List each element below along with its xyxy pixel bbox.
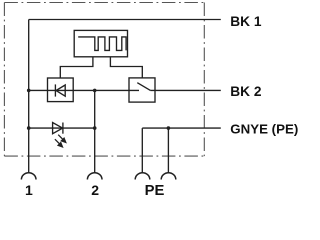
enclosure dash-dot border bottom bbox=[4, 155, 204, 157]
wire LED branch horizontal bbox=[29, 127, 95, 129]
wire GNYE (PE) horizontal bbox=[142, 127, 221, 129]
svg-text:PE: PE bbox=[145, 183, 165, 198]
svg-text:GNYE (PE): GNYE (PE) bbox=[230, 121, 298, 136]
wire BK2 right segment bbox=[150, 89, 220, 91]
wire left leg (generator to diode box) bbox=[60, 57, 93, 78]
svg-text:1: 1 bbox=[25, 182, 33, 198]
svg-text:BK 2: BK 2 bbox=[230, 84, 262, 99]
wire terminal 2 vertical bbox=[94, 90, 96, 172]
enclosure dash-dot border top bbox=[4, 2, 204, 4]
pulse generator box U1 bbox=[74, 30, 127, 56]
wire BK1 horizontal bbox=[29, 19, 221, 21]
junction dot BK2 / terminal 2 vertical bbox=[93, 89, 97, 93]
enclosure dash-dot border left bbox=[3, 3, 5, 157]
wire PE terminal 2 vertical bbox=[167, 128, 169, 173]
enclosure dash-dot border right bbox=[203, 3, 205, 157]
pulse waveform symbol bbox=[78, 37, 126, 51]
junction dot BK2 / left vertical bbox=[27, 89, 31, 93]
wire left vertical (BK1 corner down to terminal 1) bbox=[28, 20, 30, 173]
diode D1 cathode bar bbox=[54, 84, 56, 96]
terminal contact PE a bbox=[135, 173, 150, 180]
switch box bbox=[129, 78, 155, 102]
terminal contact 2 bbox=[87, 173, 102, 180]
junction dot LED line / terminal 2 vertical bbox=[93, 126, 97, 130]
LED cathode bar bbox=[62, 123, 64, 134]
switch contact lever bbox=[137, 83, 150, 91]
wire PE terminal 1 vertical bbox=[141, 128, 143, 173]
LED emission arrow 2 bbox=[55, 139, 60, 144]
svg-text:2: 2 bbox=[91, 182, 99, 198]
junction dot GNYE / PE terminal 2 vertical bbox=[167, 126, 171, 130]
terminal contact PE b bbox=[161, 173, 176, 180]
terminal contact 1 bbox=[21, 173, 36, 180]
junction dot LED line / left vertical bbox=[27, 126, 31, 130]
diode D1 triangle bbox=[56, 85, 65, 96]
diode box bbox=[48, 78, 74, 102]
wire BK2 left segment bbox=[29, 89, 139, 91]
wire right leg (generator to switch box) bbox=[110, 57, 142, 78]
LED triangle bbox=[53, 123, 63, 134]
LED emission arrow 1 bbox=[58, 135, 63, 140]
svg-text:BK 1: BK 1 bbox=[230, 14, 262, 29]
